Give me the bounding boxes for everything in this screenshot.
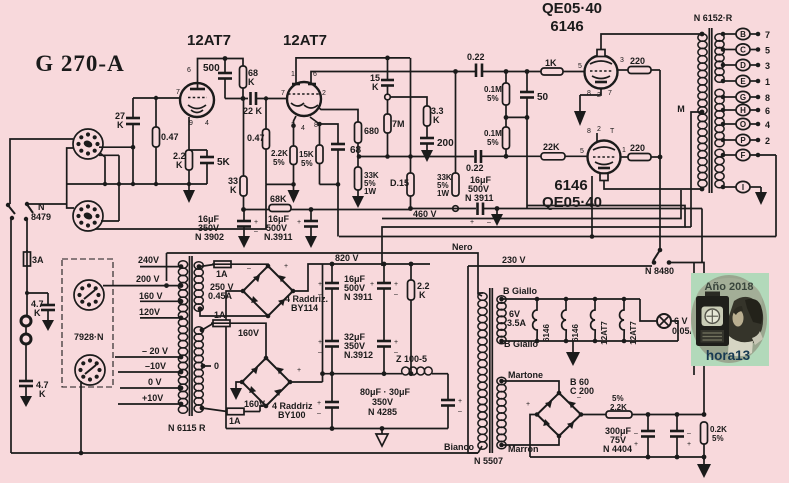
svg-text:12AT7: 12AT7 xyxy=(600,321,609,345)
node xyxy=(154,96,158,100)
capacitor 16uF 500V N 3911 preamp xyxy=(264,210,318,243)
resistor 1K grid stopper V3 xyxy=(541,58,585,75)
svg-text:200 V: 200 V xyxy=(136,274,160,284)
svg-text:220: 220 xyxy=(630,143,645,153)
0 center tap xyxy=(201,361,219,371)
heater rail top xyxy=(502,298,641,300)
ground arrow PSU xyxy=(376,429,388,447)
svg-text:B: B xyxy=(740,30,746,39)
capacitor 16uF 500V N 3911 psu xyxy=(318,264,373,340)
svg-text:160V: 160V xyxy=(244,399,265,409)
wire V2 right anode to rail 71.5 xyxy=(311,72,476,84)
ground xyxy=(42,320,54,331)
preamp B+ rail xyxy=(244,209,411,211)
power transformer core xyxy=(189,256,191,416)
feedback rail L2 xyxy=(382,190,681,219)
ground rail input stage xyxy=(66,183,207,185)
svg-text:3: 3 xyxy=(765,61,770,71)
svg-text:Bianco: Bianco xyxy=(444,442,475,452)
ground arrow screen cap xyxy=(491,206,503,226)
svg-text:–: – xyxy=(687,430,691,437)
wire bridge minus left down xyxy=(530,415,537,458)
Nero line xyxy=(167,242,483,296)
wire bridge minus down to PSU rail xyxy=(226,291,243,429)
resistor 0.1M 5% upper xyxy=(484,72,510,118)
svg-text:F: F xyxy=(741,151,746,160)
svg-text:+: + xyxy=(687,441,691,448)
capacitor 30uF section right xyxy=(441,374,462,429)
fuse 1A LV lower xyxy=(200,406,260,426)
svg-text:N.3911: N.3911 xyxy=(264,232,293,242)
svg-text:N 4404: N 4404 xyxy=(603,444,632,454)
resistor D.15 xyxy=(390,157,414,209)
wire fuse to bridge BY114 top xyxy=(233,264,268,266)
svg-text:+: + xyxy=(254,219,258,226)
tap G xyxy=(721,91,770,103)
watermark photo box xyxy=(691,273,769,366)
svg-text:0.1M: 0.1M xyxy=(484,85,502,94)
wire V3 top cap to transformer xyxy=(601,34,702,50)
capacitor 0.22 lower coupling xyxy=(357,150,541,173)
svg-text:N 6115 R: N 6115 R xyxy=(168,423,206,433)
svg-text:K: K xyxy=(248,77,255,87)
output transformer core xyxy=(708,28,710,193)
resistor 680 xyxy=(355,122,380,167)
ground xyxy=(20,396,32,407)
tap O xyxy=(721,118,770,130)
svg-text:K: K xyxy=(230,185,237,195)
wire socket S1 pin to cap node xyxy=(99,146,133,148)
ground arrow xyxy=(238,236,250,248)
svg-text:K: K xyxy=(34,308,41,318)
svg-text:hora13: hora13 xyxy=(706,348,751,363)
wire 820 rail left end down to choke node xyxy=(322,264,324,382)
output transformer secondary middle xyxy=(715,89,724,147)
socket S3 mains selector upper xyxy=(74,280,104,310)
svg-text:12AT7: 12AT7 xyxy=(187,32,231,49)
svg-text:6: 6 xyxy=(765,106,770,116)
capacitor 15K xyxy=(370,58,394,94)
wire node to 3.3K xyxy=(390,97,427,106)
wire 460V line down to switch line xyxy=(701,209,703,263)
pilot lamp 6V 0.05A xyxy=(640,299,697,341)
feedback wire F tap xyxy=(775,155,777,237)
wire top rail down to D15 line xyxy=(410,58,412,157)
svg-text:50: 50 xyxy=(537,92,549,103)
svg-text:N.3912: N.3912 xyxy=(344,350,373,360)
bridge rectifier BY114 xyxy=(241,263,328,318)
svg-text:8479: 8479 xyxy=(31,212,51,222)
svg-text:G: G xyxy=(740,93,746,102)
svg-text:–: – xyxy=(458,408,462,415)
choke Z 100-5 xyxy=(396,354,448,375)
svg-text:680: 680 xyxy=(364,126,379,136)
capacitor 50 xyxy=(520,72,549,209)
tap 120V xyxy=(139,307,183,320)
tap 200V xyxy=(103,274,183,288)
capacitor 16uF second column xyxy=(370,264,398,340)
svg-text:8: 8 xyxy=(765,93,770,103)
wire V1 anode up xyxy=(198,59,244,89)
tap F xyxy=(721,149,776,160)
svg-text:Año 2018: Año 2018 xyxy=(705,281,754,293)
svg-text:0.22: 0.22 xyxy=(466,163,484,173)
svg-text:500: 500 xyxy=(203,63,220,74)
choke input node line xyxy=(323,373,403,375)
wire to bridge bottom xyxy=(260,406,266,412)
svg-text:+: + xyxy=(634,441,638,448)
B+ rail to M xyxy=(382,206,685,267)
svg-text:0.45A: 0.45A xyxy=(208,291,233,301)
filament transformer core xyxy=(489,288,491,453)
wire input top from left edge to socket xyxy=(10,139,73,204)
svg-text:8: 8 xyxy=(587,90,591,97)
tap P xyxy=(721,134,770,146)
capacitor 27K coupling xyxy=(115,98,140,130)
svg-text:5: 5 xyxy=(580,148,584,155)
tap D xyxy=(721,59,770,71)
svg-text:0.22: 0.22 xyxy=(467,52,485,62)
wire socket S1 lower pin to rail xyxy=(100,153,105,184)
svg-text:240V: 240V xyxy=(138,255,159,265)
node circle xyxy=(385,94,391,100)
svg-text:+: + xyxy=(318,281,322,288)
svg-text:+: + xyxy=(394,281,398,288)
tube V2 12AT7 xyxy=(281,71,326,132)
svg-text:3.5A: 3.5A xyxy=(507,318,527,328)
svg-text:M: M xyxy=(677,104,685,114)
output transformer secondary upper xyxy=(715,34,724,83)
capacitor 200 xyxy=(420,138,454,150)
socket S4 mains selector lower xyxy=(75,355,105,385)
svg-text:O: O xyxy=(740,120,746,129)
820V rail xyxy=(323,253,431,264)
svg-text:E: E xyxy=(740,77,746,86)
svg-text:T: T xyxy=(610,128,615,135)
wire S4 to bottom rail xyxy=(80,381,82,453)
tap E xyxy=(721,75,770,87)
fuse 1A HV xyxy=(197,261,233,279)
svg-text:1: 1 xyxy=(765,77,770,87)
svg-text:200: 200 xyxy=(437,138,454,149)
PSU minus rail xyxy=(226,428,448,430)
power transformer LV secondary xyxy=(194,327,203,413)
svg-text:H: H xyxy=(740,106,746,115)
node junction xyxy=(25,291,29,295)
tap H xyxy=(721,104,770,116)
wire bridge BY100 plus to choke node xyxy=(290,381,323,383)
tube V3 6146 upper xyxy=(578,50,624,100)
svg-text:1A: 1A xyxy=(214,310,226,320)
resistor 15K 5% xyxy=(299,117,323,184)
label 6V 3.5A xyxy=(507,309,527,328)
wire V4 bottom cap to transformer primary bottom xyxy=(604,181,702,190)
capacitor 5K cathode bypass xyxy=(189,150,231,184)
svg-text:820 V: 820 V xyxy=(335,253,359,263)
ground arrow xyxy=(305,236,317,248)
ground arrow heater rail xyxy=(566,341,580,366)
bottom rail right xyxy=(530,456,704,458)
svg-text:1: 1 xyxy=(291,71,295,78)
svg-text:Martone: Martone xyxy=(508,370,543,380)
resistor 2.2K cathode V1 xyxy=(173,117,193,184)
node grid V2 xyxy=(264,96,268,100)
svg-text:80μF · 30μF: 80μF · 30μF xyxy=(360,387,411,397)
svg-text:4: 4 xyxy=(301,125,305,132)
binding post lower xyxy=(21,334,31,344)
bridge rectifier BY100 xyxy=(240,356,313,420)
svg-text:P: P xyxy=(740,136,746,145)
bridge rectifier B60 C200 xyxy=(526,377,594,438)
svg-text:6: 6 xyxy=(187,67,191,74)
svg-text:68: 68 xyxy=(350,145,362,156)
svg-text:1A: 1A xyxy=(216,269,228,279)
svg-text:6146: 6146 xyxy=(554,177,587,194)
svg-text:2: 2 xyxy=(597,126,601,133)
svg-text:0.2K: 0.2K xyxy=(710,425,727,434)
svg-text:Nero: Nero xyxy=(452,242,473,252)
svg-text:2: 2 xyxy=(322,90,326,97)
wire switch pole1 down xyxy=(10,219,12,453)
socket S1 input xyxy=(73,129,103,159)
svg-text:K: K xyxy=(117,120,124,130)
svg-text:QE05·40: QE05·40 xyxy=(542,0,602,17)
svg-text:230 V: 230 V xyxy=(502,255,526,265)
heater filament 12AT7 a xyxy=(591,299,609,345)
svg-text:–: – xyxy=(634,430,638,437)
svg-text:5: 5 xyxy=(578,63,582,70)
capacitor 68 xyxy=(320,124,362,237)
node circle on 460V line xyxy=(453,206,459,212)
svg-text:BY114: BY114 xyxy=(291,303,318,313)
wire rail to socket S2 xyxy=(118,155,120,221)
230V line xyxy=(468,255,652,453)
switch N 8479 pole 2 xyxy=(24,202,33,221)
ground arrow bottom right xyxy=(697,457,711,478)
wire fuse to bridge BY100 xyxy=(240,323,266,358)
resistor 33K plate supply V1 xyxy=(228,176,247,210)
svg-text:5%: 5% xyxy=(301,159,313,168)
svg-text:0: 0 xyxy=(214,361,219,371)
svg-text:N 6152·R: N 6152·R xyxy=(694,13,733,23)
resistor 2.2K bleeder xyxy=(408,264,430,374)
heater filament 6146 b xyxy=(562,299,580,342)
svg-text:5K: 5K xyxy=(217,157,231,168)
capacitor 4.7K lower xyxy=(19,380,49,399)
tap -10V xyxy=(118,361,183,374)
wire socket S2 to V2 grid resistor xyxy=(95,184,266,229)
feedback rail L4 xyxy=(339,236,776,238)
tap 0V xyxy=(120,377,183,390)
svg-text:1A: 1A xyxy=(229,416,241,426)
svg-text:3A: 3A xyxy=(32,255,44,265)
switch N 8480 xyxy=(645,248,674,276)
node plate out xyxy=(225,98,248,100)
svg-text:2.2K: 2.2K xyxy=(610,403,627,412)
resistor 3.3K xyxy=(424,106,444,137)
tap -20V xyxy=(115,346,183,359)
resistor 0.47 grid V2 xyxy=(247,99,270,185)
svg-text:0.1M: 0.1M xyxy=(484,129,502,138)
wire switch pole2 to fuse xyxy=(26,219,28,252)
resistor 220 plate V4 xyxy=(621,143,661,161)
svg-text:Z 100-5: Z 100-5 xyxy=(396,354,427,364)
capacitor 22K coupling xyxy=(243,92,287,116)
resistor 2.2K 5% bias xyxy=(606,394,704,418)
ground arrow input stage xyxy=(183,184,195,203)
resistor 220 plate V3 xyxy=(618,56,661,74)
wire posts column xyxy=(26,293,28,316)
resistor 0.2K 5% xyxy=(701,422,728,460)
svg-text:7: 7 xyxy=(281,90,285,97)
svg-text:6146: 6146 xyxy=(542,324,551,342)
svg-text:1K: 1K xyxy=(545,58,557,68)
dashed box 7928-N xyxy=(62,259,113,387)
svg-text:3: 3 xyxy=(620,57,624,64)
svg-text:460 V: 460 V xyxy=(413,209,437,219)
fuse 1A LV upper xyxy=(200,310,240,332)
svg-text:7: 7 xyxy=(608,90,612,97)
svg-text:N 5507: N 5507 xyxy=(474,456,503,466)
svg-text:8: 8 xyxy=(587,128,591,135)
wire secondary bottom to bridge xyxy=(200,309,268,316)
svg-text:7: 7 xyxy=(176,89,180,96)
svg-text:K: K xyxy=(419,290,426,300)
svg-text:5%: 5% xyxy=(273,158,285,167)
svg-text:+: + xyxy=(297,367,301,374)
svg-text:C 200: C 200 xyxy=(570,386,594,396)
svg-text:0.47: 0.47 xyxy=(247,133,265,143)
ground arrow tap I xyxy=(755,187,767,205)
tap 240V xyxy=(138,255,183,269)
svg-text:+: + xyxy=(526,401,530,408)
svg-text:K: K xyxy=(39,389,46,399)
svg-text:B Giallo: B Giallo xyxy=(503,286,538,296)
tap +10V xyxy=(118,393,183,406)
460V screen line xyxy=(410,203,702,227)
switch N 8479 pole 1 xyxy=(6,203,15,220)
wire Marron to bridge xyxy=(502,436,560,445)
svg-text:D.15: D.15 xyxy=(390,178,409,188)
svg-text:+: + xyxy=(297,219,301,226)
ground arrow under 33K xyxy=(352,190,364,208)
tap C xyxy=(721,44,770,56)
power transformer primary coil xyxy=(178,261,187,414)
svg-text:15K: 15K xyxy=(299,150,314,159)
svg-text:K: K xyxy=(176,160,183,170)
output transformer secondary lower xyxy=(715,149,724,188)
wire bridge plus to 820V rail xyxy=(293,264,323,291)
ground arrow bridge BY100 xyxy=(230,382,242,400)
resistor 33K 5% 1W right xyxy=(437,72,459,199)
svg-text:6146: 6146 xyxy=(571,324,580,342)
svg-text:5%: 5% xyxy=(612,394,624,403)
svg-text:G 270-A: G 270-A xyxy=(35,51,124,76)
svg-text:7: 7 xyxy=(765,30,770,40)
power transformer HV secondary xyxy=(194,262,203,312)
filament transformer N 5507 primary xyxy=(478,293,487,450)
svg-text:BY100: BY100 xyxy=(278,410,306,420)
svg-text:2.2K: 2.2K xyxy=(271,149,288,158)
svg-text:+: + xyxy=(284,263,288,270)
screen feed vertical xyxy=(659,70,661,250)
svg-text:–10V: –10V xyxy=(145,361,166,371)
svg-text:4: 4 xyxy=(205,120,209,127)
wire fuse to antenna node xyxy=(27,268,48,293)
socket S2 input xyxy=(73,201,103,231)
svg-text:160 V: 160 V xyxy=(139,291,163,301)
heater rail bottom xyxy=(502,340,679,342)
wire Martone to bridge xyxy=(502,381,560,393)
16uF 500V N 3911 screen cap label xyxy=(465,175,494,203)
svg-text:5: 5 xyxy=(765,46,770,56)
svg-text:–: – xyxy=(318,291,322,298)
heater filament 6146 a xyxy=(533,299,551,342)
resistor 7M xyxy=(384,100,405,157)
capacitor 0.22 upper coupling xyxy=(467,52,541,77)
svg-text:+: + xyxy=(394,339,398,346)
heater filament 12AT7 b xyxy=(620,299,638,345)
svg-text:68K: 68K xyxy=(270,194,287,204)
svg-text:7M: 7M xyxy=(392,119,405,129)
bias output line xyxy=(581,414,606,416)
svg-text:+: + xyxy=(470,219,474,226)
radio xyxy=(705,292,720,298)
svg-text:1: 1 xyxy=(622,147,626,154)
svg-text:+: + xyxy=(318,339,322,346)
svg-text:+: + xyxy=(317,400,321,407)
svg-text:0 V: 0 V xyxy=(148,377,162,387)
svg-text:+: + xyxy=(370,281,374,288)
wire grid line V1 xyxy=(133,97,180,99)
filament secondary bias xyxy=(497,377,506,449)
svg-text:N 3911: N 3911 xyxy=(344,292,373,302)
svg-text:– 20 V: – 20 V xyxy=(142,346,168,356)
svg-text:0.47: 0.47 xyxy=(161,132,179,142)
resistor 68K plate V1 xyxy=(240,66,259,99)
svg-text:N 8480: N 8480 xyxy=(645,266,674,276)
svg-text:1W: 1W xyxy=(364,187,376,196)
binding post upper xyxy=(21,316,31,326)
svg-text:6 V: 6 V xyxy=(674,316,688,326)
resistor 0.47 grid leak V1 xyxy=(153,98,179,184)
fuse 3A xyxy=(24,250,45,268)
wire V2 left anode to top rail xyxy=(296,58,410,83)
svg-text:2: 2 xyxy=(765,136,770,146)
svg-text:+: + xyxy=(458,398,462,405)
svg-text:–: – xyxy=(317,410,321,417)
svg-text:–: – xyxy=(487,219,491,226)
svg-text:N 3902: N 3902 xyxy=(195,232,224,242)
svg-text:–: – xyxy=(247,265,251,272)
bias node wire xyxy=(506,116,527,118)
svg-text:–: – xyxy=(394,291,398,298)
capacitor 300uF 75V N 4404 xyxy=(603,415,655,458)
resistor 33K 5% 1W left xyxy=(355,167,379,196)
filament secondary 6V xyxy=(497,296,506,344)
tube V1 12AT7 xyxy=(176,67,214,127)
cathode return wires V3 V4 xyxy=(580,88,601,95)
svg-text:I: I xyxy=(742,183,744,192)
tap B xyxy=(721,28,770,40)
label 250V 0.45A xyxy=(208,282,234,301)
capacitor 32uF 350V N 3912 xyxy=(318,332,373,401)
svg-text:–: – xyxy=(318,349,322,356)
capacitor 4.7K input xyxy=(31,293,55,320)
bottom rail left Bianco xyxy=(11,442,478,453)
capacitor 32uF second column xyxy=(377,339,398,374)
wire V2 pin 8 to 680 xyxy=(318,107,358,122)
